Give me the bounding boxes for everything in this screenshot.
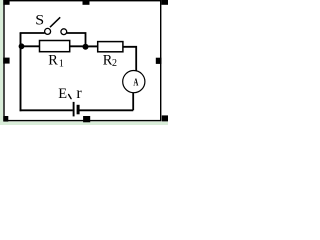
wire node B to R2 (86, 45, 98, 47)
battery label comma (69, 95, 72, 99)
node A junction dot (19, 43, 25, 49)
node B junction dot (83, 44, 89, 50)
wire ammeter to bottom (132, 93, 134, 111)
wire R2 to ammeter (123, 47, 136, 72)
wire top from corner to switch (20, 32, 45, 34)
wire node A to node B through R1 (22, 45, 86, 47)
wire left vertical (20, 33, 22, 111)
battery E r short plate (77, 105, 80, 115)
svg-text:E: E (58, 86, 67, 102)
battery E r long plate (73, 102, 75, 117)
switch S (35, 12, 66, 34)
svg-text:R: R (48, 53, 58, 69)
svg-text:S: S (35, 12, 44, 28)
svg-text:r: r (76, 85, 82, 102)
wire bottom left to battery (20, 109, 73, 111)
svg-text:1: 1 (59, 59, 64, 70)
wire battery to bottom right corner (79, 109, 133, 111)
resistor R2 (98, 42, 123, 69)
svg-text:2: 2 (112, 58, 117, 69)
resistor R1 (40, 41, 70, 70)
svg-text:A: A (133, 76, 139, 88)
ammeter A (123, 71, 145, 93)
wire switch to right corner down to node B (67, 33, 86, 46)
